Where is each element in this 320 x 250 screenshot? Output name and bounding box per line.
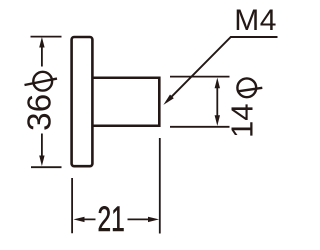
svg-text:21: 21	[97, 201, 124, 239]
svg-text:14: 14	[225, 104, 260, 138]
svg-text:36: 36	[22, 94, 59, 131]
svg-text:M4: M4	[234, 4, 277, 37]
